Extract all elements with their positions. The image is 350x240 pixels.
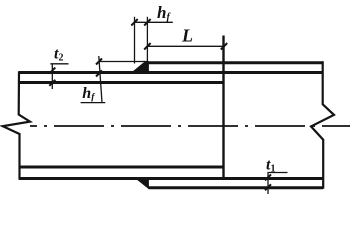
svg-text:L: L bbox=[181, 26, 193, 46]
dimension t2: tick lower bbox=[49, 80, 55, 86]
inner pipe top outer surface / sleeve top inner wire bbox=[19, 71, 323, 74]
left break line bbox=[3, 71, 30, 180]
top fillet weld bbox=[130, 62, 149, 75]
inner pipe end face bbox=[222, 36, 224, 179]
dimension hf (left): label underline bbox=[81, 102, 106, 104]
dimension hf (left): tick upper bbox=[96, 59, 102, 65]
dimension t1: tick lower bbox=[265, 184, 271, 190]
dimension L: tick right bbox=[221, 43, 227, 49]
dimension t2: leader shelf bbox=[50, 63, 68, 65]
dimension hf (left): tick lower bbox=[96, 71, 102, 77]
dimension t2: tick upper bbox=[49, 68, 55, 74]
right break line bbox=[311, 61, 334, 189]
inner pipe bottom inner surface wire bbox=[19, 166, 224, 169]
dimension hf (top): tick left bbox=[131, 19, 137, 25]
inner pipe top inner surface wire bbox=[19, 81, 224, 84]
dimension hf (top): tick right bbox=[144, 19, 150, 25]
bottom fillet weld bbox=[134, 177, 149, 189]
dimension t1: vertical line bbox=[267, 173, 269, 195]
dimension hf (top): extension line at weld toe bbox=[134, 17, 136, 64]
dimension t1: leader shelf bbox=[268, 172, 288, 174]
dimension t2: vertical line bbox=[51, 64, 53, 89]
sleeve pipe bottom outer surface bbox=[149, 186, 324, 189]
centerline (dash-dot axis) bbox=[30, 125, 350, 127]
dimension L: dimension line bbox=[147, 45, 224, 47]
dimension hf (left): extension line at weld top level bbox=[99, 61, 149, 63]
dimension t1: tick upper bbox=[265, 174, 271, 180]
sleeve pipe top outer surface bbox=[149, 61, 324, 64]
dimension hf (left): vertical dimension line bbox=[99, 56, 102, 103]
dimension L: tick left bbox=[144, 43, 150, 49]
inner pipe bottom outer surface / sleeve bottom inner wire bbox=[19, 177, 323, 180]
dimension hf (top): extension line at sleeve end bbox=[146, 17, 148, 62]
dimension hf (top): dimension line bbox=[135, 21, 173, 23]
